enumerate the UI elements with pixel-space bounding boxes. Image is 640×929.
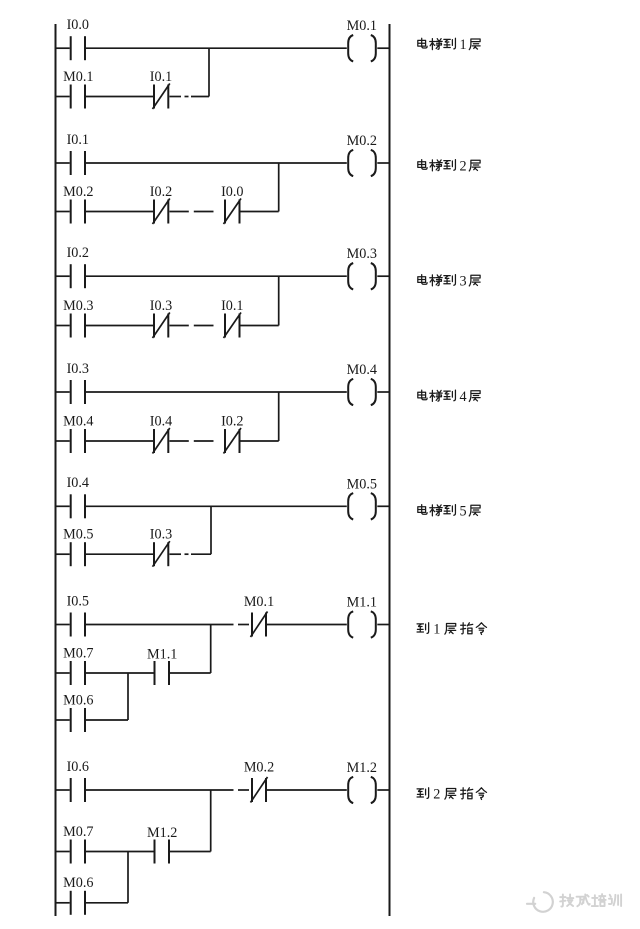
label M0.1 <box>244 594 274 610</box>
rung 5 wire: coil to right rail <box>377 505 389 507</box>
rung 6 top wire: left rail to contact I0.5 <box>56 624 70 626</box>
coil M1.2 <box>348 777 376 803</box>
rung 4 branch dashed wire after I0.4 <box>170 440 214 442</box>
contact M0.6 (NO) <box>71 891 85 915</box>
contact M0.1 (NO) <box>71 85 85 109</box>
label M0.4 (coil) <box>347 362 377 378</box>
rung 7 branch join vertical wire <box>210 790 212 852</box>
svg-text:M0.2: M0.2 <box>347 133 377 149</box>
label I0.1 <box>67 132 89 148</box>
rung 3 top wire: contact to coil <box>86 275 347 277</box>
contact I0.6 (NO) <box>71 778 85 802</box>
right power rail <box>389 24 391 916</box>
rung 7 branch wire to contact M1.2 <box>86 851 154 853</box>
svg-text:M0.6: M0.6 <box>63 692 93 708</box>
rung 3 branch dashed wire after I0.3 <box>170 325 214 327</box>
rung 2 branch dashed wire after I0.2 <box>170 211 214 213</box>
rung 6 second branch wire to join <box>86 719 128 721</box>
svg-text:I0.0: I0.0 <box>221 184 243 200</box>
svg-text:3: 3 <box>459 273 466 289</box>
rung 4 branch wire to contact I0.4 <box>86 440 153 442</box>
contact M0.6 (NO) <box>71 708 85 732</box>
rung 2 branch wire to join <box>241 211 279 213</box>
svg-text:I0.4: I0.4 <box>67 475 89 491</box>
rung 7 top wire: left rail to contact I0.6 <box>56 789 70 791</box>
contact I0.0 (NC) <box>224 199 242 225</box>
rung 2 wire: coil to right rail <box>377 162 389 164</box>
contact I0.2 (NO) <box>71 264 85 288</box>
svg-text:2: 2 <box>433 787 440 803</box>
contact M1.1 (NO) <box>155 661 170 685</box>
rung 7 branch wire: left rail to contact M0.7 <box>56 851 70 853</box>
label I0.2 <box>67 245 89 261</box>
label I0.1 <box>150 69 172 85</box>
rung 5 branch join vertical wire <box>210 506 212 554</box>
rung 2 branch join vertical wire <box>278 163 280 212</box>
svg-text:I0.3: I0.3 <box>150 527 172 543</box>
rung 4 branch join vertical wire <box>278 392 280 441</box>
contact M0.7 (NO) <box>71 840 85 864</box>
contact M0.7 (NO) <box>71 661 85 685</box>
svg-text:M1.1: M1.1 <box>347 595 377 611</box>
label M0.5 <box>63 527 93 543</box>
rung 7 second branch wire to join <box>86 902 128 904</box>
rung 1 branch wire: left rail to contact M0.1 <box>56 96 70 98</box>
svg-text:I0.4: I0.4 <box>150 413 172 429</box>
svg-text:M0.7: M0.7 <box>63 824 93 840</box>
svg-text:M0.5: M0.5 <box>347 476 377 492</box>
contact M0.2 (NC) <box>251 777 268 803</box>
label M0.7 <box>63 646 93 662</box>
svg-text:M0.6: M0.6 <box>63 875 93 891</box>
rung 1 branch wire to contact I0.1 <box>86 96 153 98</box>
rung 6 second branch join vertical wire <box>127 673 129 720</box>
rung 5 branch dashed wire to join <box>170 553 212 555</box>
svg-text:M0.1: M0.1 <box>244 594 274 610</box>
comment 到1层指令 <box>417 622 486 638</box>
contact M0.5 (NO) <box>71 542 85 566</box>
label I0.3 <box>150 298 172 314</box>
svg-text:5: 5 <box>459 503 466 519</box>
svg-text:I0.1: I0.1 <box>67 132 89 148</box>
comment 电梯到1层 <box>418 37 480 53</box>
coil M0.4 <box>348 379 376 405</box>
label M0.3 (coil) <box>347 246 377 262</box>
svg-text:I0.6: I0.6 <box>67 759 89 775</box>
rung 4 branch wire: left rail to contact M0.4 <box>56 440 70 442</box>
svg-text:M0.5: M0.5 <box>63 527 93 543</box>
svg-text:M0.1: M0.1 <box>63 69 93 85</box>
contact M1.2 (NO) <box>155 840 170 864</box>
label I0.2 <box>221 413 243 429</box>
rung 7 top wire: contact to coil <box>267 789 347 791</box>
rung 6 top wire: contact to coil <box>267 624 347 626</box>
rung 3 branch wire: left rail to contact M0.3 <box>56 325 70 327</box>
contact I0.3 (NC) <box>153 541 170 567</box>
comment 电梯到4层 <box>418 389 480 405</box>
watermark text 技成培训 <box>560 894 621 906</box>
rung 7 second branch wire: left rail to contact M0.6 <box>56 902 70 904</box>
label I0.0 <box>67 17 89 33</box>
label M0.4 <box>63 413 93 429</box>
coil M1.1 <box>348 611 376 637</box>
label I0.5 <box>67 593 89 609</box>
label I0.2 <box>150 184 172 200</box>
svg-text:I0.1: I0.1 <box>221 298 243 314</box>
rung 5 branch wire: left rail to contact M0.5 <box>56 553 70 555</box>
label M1.2 <box>147 825 177 841</box>
rung 1 branch join vertical wire <box>208 48 210 96</box>
contact I0.1 (NC) <box>224 313 242 339</box>
label M0.6 <box>63 692 93 708</box>
label M0.1 <box>63 69 93 85</box>
label M0.1 (coil) <box>347 18 377 34</box>
watermark logo <box>527 892 553 912</box>
rung 5 branch wire to contact I0.3 <box>86 553 153 555</box>
rung 7 wire: coil to right rail <box>377 789 389 791</box>
svg-text:I0.2: I0.2 <box>221 413 243 429</box>
svg-text:1: 1 <box>433 622 440 638</box>
contact I0.4 (NO) <box>71 494 85 518</box>
rung 3 branch wire to contact I0.3 <box>86 325 153 327</box>
comment 电梯到5层 <box>418 503 480 519</box>
svg-text:M1.2: M1.2 <box>347 760 377 776</box>
svg-text:I0.5: I0.5 <box>67 593 89 609</box>
comment 电梯到2层 <box>418 158 480 174</box>
label I0.0 <box>221 184 243 200</box>
rung 3 wire: coil to right rail <box>377 275 389 277</box>
rung 3 branch wire to join <box>241 325 279 327</box>
rung 2 branch wire: left rail to contact M0.2 <box>56 211 70 213</box>
rung 2 branch wire to contact I0.2 <box>86 211 153 213</box>
contact I0.1 (NC) <box>153 84 170 110</box>
comment 到2层指令 <box>417 787 486 803</box>
rung 2 top wire: left rail to contact I0.1 <box>56 162 70 164</box>
svg-text:M0.1: M0.1 <box>347 18 377 34</box>
rung 6 branch join vertical wire <box>210 625 212 674</box>
contact I0.2 (NC) <box>224 428 242 454</box>
contact I0.5 (NO) <box>71 613 85 637</box>
contact M0.4 (NO) <box>71 429 85 453</box>
svg-text:M0.4: M0.4 <box>347 362 377 378</box>
rung 6 branch wire to contact M1.1 <box>86 672 154 674</box>
svg-text:M0.3: M0.3 <box>347 246 377 262</box>
label M0.2 <box>244 759 274 775</box>
svg-text:M0.4: M0.4 <box>63 413 93 429</box>
rung 1 branch dashed wire to join <box>170 96 210 98</box>
svg-text:M0.3: M0.3 <box>63 298 93 314</box>
rung 2 top wire: contact to coil <box>86 162 347 164</box>
label M1.1 (coil) <box>347 595 377 611</box>
rung 1 wire: coil to right rail <box>377 47 389 49</box>
rung 6 branch wire to join <box>170 672 211 674</box>
svg-text:M0.2: M0.2 <box>63 184 93 200</box>
svg-text:2: 2 <box>459 158 466 174</box>
contact M0.1 (NC) <box>251 612 268 638</box>
svg-text:1: 1 <box>459 37 466 53</box>
svg-text:M0.7: M0.7 <box>63 646 93 662</box>
label I0.4 <box>150 413 172 429</box>
contact I0.2 (NC) <box>153 199 170 225</box>
contact I0.0 (NO) <box>71 36 85 60</box>
label M0.2 <box>63 184 93 200</box>
comment 电梯到3层 <box>418 273 480 289</box>
svg-text:I0.3: I0.3 <box>67 361 89 377</box>
label M0.3 <box>63 298 93 314</box>
rung 3 branch join vertical wire <box>278 276 280 325</box>
coil M0.5 <box>348 493 376 519</box>
contact M0.2 (NO) <box>71 200 85 224</box>
rung 4 top wire: contact to coil <box>86 391 347 393</box>
label M1.1 <box>147 647 177 663</box>
rung 4 wire: coil to right rail <box>377 391 389 393</box>
label I0.6 <box>67 759 89 775</box>
svg-text:4: 4 <box>459 389 466 405</box>
svg-text:I0.2: I0.2 <box>150 184 172 200</box>
rung 4 branch wire to join <box>241 440 279 442</box>
label I0.4 <box>67 475 89 491</box>
rung 6 top dashed wire to contact M0.1 <box>86 624 249 626</box>
svg-text:I0.0: I0.0 <box>67 17 89 33</box>
label M0.5 (coil) <box>347 476 377 492</box>
rung 6 second branch wire: left rail to contact M0.6 <box>56 719 70 721</box>
rung 6 branch wire: left rail to contact M0.7 <box>56 672 70 674</box>
label I0.3 <box>150 527 172 543</box>
rung 5 top wire: contact to coil <box>86 505 347 507</box>
svg-text:I0.2: I0.2 <box>67 245 89 261</box>
rung 7 branch wire to join <box>170 851 211 853</box>
contact I0.3 (NO) <box>71 380 85 404</box>
coil M0.3 <box>348 263 376 289</box>
svg-text:I0.1: I0.1 <box>150 69 172 85</box>
label M1.2 (coil) <box>347 760 377 776</box>
svg-text:I0.3: I0.3 <box>150 298 172 314</box>
label M0.7 <box>63 824 93 840</box>
rung 4 top wire: left rail to contact I0.3 <box>56 391 70 393</box>
label M0.6 <box>63 875 93 891</box>
svg-text:M1.1: M1.1 <box>147 647 177 663</box>
rung 1 top wire: left rail to contact I0.0 <box>56 47 70 49</box>
coil M0.1 <box>348 35 376 61</box>
rung 5 top wire: left rail to contact I0.4 <box>56 505 70 507</box>
rung 3 top wire: left rail to contact I0.2 <box>56 275 70 277</box>
rung 7 second branch join vertical wire <box>127 852 129 903</box>
svg-text:M1.2: M1.2 <box>147 825 177 841</box>
contact I0.3 (NC) <box>153 313 170 339</box>
contact I0.1 (NO) <box>71 151 85 175</box>
contact M0.3 (NO) <box>71 314 85 338</box>
left power rail <box>55 24 57 916</box>
coil M0.2 <box>348 150 376 176</box>
rung 1 top wire: contact to coil <box>86 47 347 49</box>
contact I0.4 (NC) <box>153 428 170 454</box>
rung 7 top dashed wire to contact M0.2 <box>86 789 249 791</box>
svg-text:M0.2: M0.2 <box>244 759 274 775</box>
label M0.2 (coil) <box>347 133 377 149</box>
label I0.3 <box>67 361 89 377</box>
rung 6 wire: coil to right rail <box>377 624 389 626</box>
label I0.1 <box>221 298 243 314</box>
